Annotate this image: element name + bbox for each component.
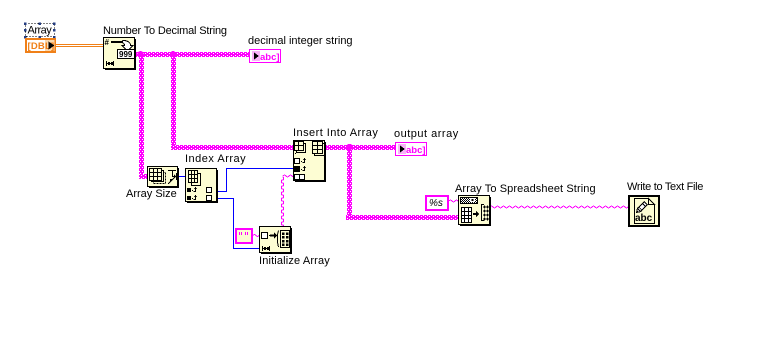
- wire: blue from Index Array out1 to Insert Into Array: [217, 168, 293, 192]
- wire: into Array To Spreadsheet String lower input: [346, 215, 458, 220]
- wire: orange DBL-array from Array control to Number To Decimal String: [56, 44, 103, 47]
- svg-text:Insert Into Array: Insert Into Array: [293, 127, 378, 139]
- wire: blue from Array Size to Index Array: [177, 176, 185, 177]
- svg-text:decimal integer string: decimal integer string: [248, 35, 353, 47]
- junction dot C: [346, 144, 352, 150]
- wire: into Insert Into Array lower input: [283, 175, 295, 177]
- wire: into Insert Into Array top input: [171, 145, 293, 150]
- node: Array To Spreadsheet String: [459, 196, 492, 227]
- svg-text:abc]: abc]: [406, 145, 426, 156]
- wire: string-array from Number To Decimal String to decimal integer string indicator: [134, 52, 249, 57]
- wire: branch down toward Array To Spreadsheet String: [347, 149, 352, 219]
- svg-text:Array To Spreadsheet String: Array To Spreadsheet String: [455, 183, 596, 195]
- wire: into Array Size: [139, 174, 147, 179]
- node: output array indicator: [396, 143, 427, 157]
- wire: %s constant to Array To Spreadsheet String: [449, 200, 461, 202]
- node: Initialize Array: [260, 227, 293, 255]
- node: decimal integer string indicator: [250, 50, 281, 64]
- svg-text:Write to Text File: Write to Text File: [627, 181, 703, 193]
- node: Array control label with selection marquee: [24, 22, 56, 38]
- node: Index Array: [186, 169, 219, 204]
- svg-text:abc]: abc]: [260, 52, 280, 63]
- svg-text:abc: abc: [635, 213, 653, 224]
- wire: blue from Index Array out2 to Initialize Array: [217, 198, 259, 249]
- node: Number To Decimal String: [104, 38, 137, 71]
- node: Array Size: [148, 167, 180, 189]
- wire: empty string constant to Initialize Array: [253, 235, 262, 237]
- node: Write to Text File: [629, 196, 659, 226]
- node: %s format string constant: [426, 196, 448, 210]
- wire: branch down to Array Size: [139, 52, 144, 179]
- svg-text:Array: Array: [28, 25, 53, 37]
- svg-text:Number To Decimal String: Number To Decimal String: [103, 25, 227, 37]
- svg-text:Index Array: Index Array: [185, 153, 246, 165]
- svg-text:Initialize Array: Initialize Array: [259, 255, 330, 267]
- node: Array [DBL] array control terminal: [26, 39, 55, 52]
- wire: Insert Into Array output to output array indicator: [325, 145, 395, 150]
- svg-text:%s: %s: [429, 198, 443, 209]
- wire: branch down toward Insert Into Array: [171, 52, 176, 149]
- node: empty string constant: [236, 229, 252, 243]
- junction dot A: [138, 51, 144, 57]
- wire: Initialize Array up to Insert Into Array: [282, 177, 284, 228]
- node: Insert Into Array: [294, 141, 327, 183]
- svg-text:999: 999: [119, 50, 133, 59]
- svg-text:output array: output array: [394, 128, 459, 140]
- svg-text:Array Size: Array Size: [126, 188, 177, 200]
- wire: Array To Spreadsheet String to Write to Text File: [490, 206, 631, 208]
- junction dot B: [170, 51, 176, 57]
- svg-text:#: #: [105, 38, 110, 47]
